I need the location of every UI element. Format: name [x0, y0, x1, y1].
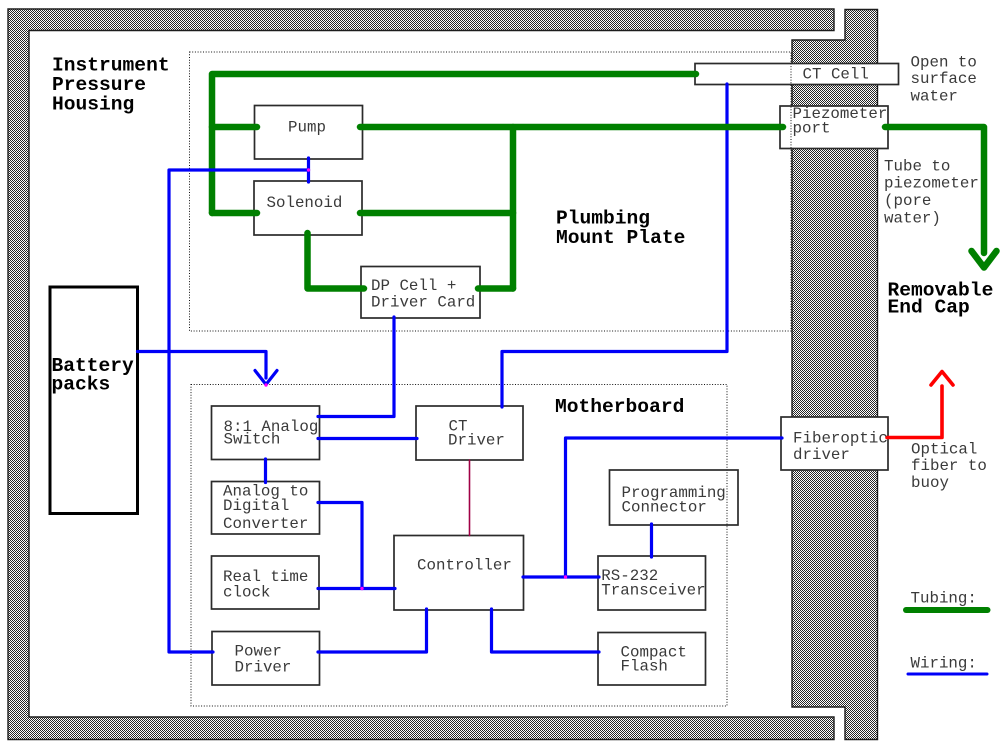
svg-text:Wiring:: Wiring: — [911, 655, 977, 673]
box: 8:1 analog switch — [212, 406, 320, 460]
wire: programming connector to rs-232 — [650, 524, 653, 557]
svg-text:Digital: Digital — [223, 497, 289, 515]
wire: pump/solenoid junction to power driver — [169, 170, 309, 652]
wire: controller net to fiberoptic driver — [566, 438, 783, 577]
svg-text:Housing: Housing — [52, 94, 134, 116]
node: fiberoptic tap — [564, 575, 567, 578]
wire: controller to power driver — [318, 609, 427, 652]
box: piezometer port — [780, 106, 888, 149]
tube: riser to solenoid inlet — [212, 210, 257, 217]
svg-text:surface: surface — [911, 70, 977, 88]
svg-text:port: port — [793, 120, 831, 138]
box: programming connector — [610, 470, 739, 525]
tube: dp cell outlet to branch — [478, 285, 513, 292]
tube: branch down to dp cell — [510, 127, 517, 289]
wire: legend wiring sample — [908, 673, 987, 676]
wire: ct cell to ct driver — [502, 84, 727, 407]
box: battery packs — [50, 287, 138, 514]
box: dp cell + driver card — [361, 267, 480, 319]
svg-text:Open to: Open to — [911, 54, 977, 72]
svg-text:Motherboard: Motherboard — [555, 396, 684, 418]
svg-text:clock: clock — [223, 584, 270, 602]
svg-text:Flash: Flash — [621, 657, 668, 675]
tube: manifold riser to ct cell — [212, 74, 696, 213]
wire: fiberoptic driver to buoy fiber — [887, 386, 942, 438]
wire arrowhead: optical fiber up — [931, 372, 953, 386]
svg-text:Driver: Driver — [235, 659, 292, 677]
svg-text:Transceiver: Transceiver — [601, 582, 705, 600]
svg-text:Fiberoptic: Fiberoptic — [793, 430, 888, 448]
node: adc tap on controller wire — [360, 587, 363, 590]
box: solenoid — [254, 181, 362, 235]
svg-text:driver: driver — [793, 446, 850, 464]
box: controller — [394, 536, 524, 611]
wire: ct driver to controller (sense line) — [469, 460, 471, 536]
box: ct driver — [416, 406, 523, 460]
svg-text:Tubing:: Tubing: — [911, 590, 977, 608]
wire: pump to solenoid — [307, 158, 310, 182]
svg-text:water: water — [911, 88, 958, 106]
svg-text:piezometer: piezometer — [884, 175, 979, 193]
tube: riser to pump inlet — [212, 124, 257, 131]
svg-text:Switch: Switch — [224, 431, 281, 449]
tube: pump outlet to piezometer port — [360, 124, 783, 131]
svg-text:water): water) — [884, 209, 941, 227]
box: power driver — [212, 632, 320, 686]
wire: switch to analog-digital converter — [264, 459, 267, 483]
svg-text:Controller: Controller — [417, 557, 512, 575]
node: pump/solenoid tap — [307, 168, 310, 171]
svg-text:Driver Card: Driver Card — [371, 294, 475, 312]
box: rs-232 transceiver — [598, 556, 706, 610]
removable end cap (hatched bar, right) — [792, 10, 878, 740]
wire: controller to compact flash — [492, 609, 600, 652]
svg-text:Mount Plate: Mount Plate — [556, 227, 685, 249]
tube: solenoid outlet to branch — [360, 210, 513, 217]
box: ct cell — [695, 64, 899, 85]
wire arrowhead: into motherboard — [255, 371, 277, 385]
svg-text:DP Cell +: DP Cell + — [371, 277, 456, 295]
svg-text:fiber to: fiber to — [911, 457, 987, 475]
motherboard (dotted outline) — [191, 385, 727, 707]
wire: real time clock to controller — [318, 587, 395, 590]
box: pump — [255, 106, 363, 160]
svg-text:packs: packs — [52, 374, 111, 396]
svg-text:Tube to: Tube to — [884, 157, 950, 175]
tube: legend tubing sample — [906, 607, 988, 613]
wire: dp cell to 8:1 analog switch — [318, 317, 394, 417]
wire: battery packs to motherboard (arrow run) — [138, 352, 267, 379]
svg-text:Optical: Optical — [911, 440, 977, 458]
box: compact flash — [598, 633, 706, 686]
svg-text:(pore: (pore — [884, 192, 931, 210]
svg-text:buoy: buoy — [911, 474, 949, 492]
svg-text:Driver: Driver — [448, 432, 505, 450]
svg-text:Connector: Connector — [622, 499, 707, 517]
plumbing mount plate (dotted outline) — [190, 52, 792, 331]
tube: piezometer port out through end cap — [885, 127, 984, 253]
wire: adc to controller wire junction — [318, 503, 362, 589]
svg-text:End Cap: End Cap — [888, 297, 970, 319]
tube arrowhead: to piezometer (pore water) — [972, 251, 997, 268]
wire: 8:1 analog switch to ct driver — [318, 437, 417, 440]
svg-text:Solenoid: Solenoid — [267, 194, 343, 212]
svg-text:Converter: Converter — [223, 515, 308, 533]
wire: controller to rs-232 transceiver — [523, 575, 599, 578]
svg-text:CT Cell: CT Cell — [803, 66, 869, 84]
box: analog to digital converter — [212, 482, 320, 535]
svg-text:Pump: Pump — [288, 119, 326, 137]
box: real time clock — [212, 556, 320, 609]
node: arrow tip at motherboard — [264, 383, 267, 386]
tube: solenoid to dp cell inlet — [308, 233, 365, 289]
box: fiberoptic driver — [781, 417, 888, 470]
